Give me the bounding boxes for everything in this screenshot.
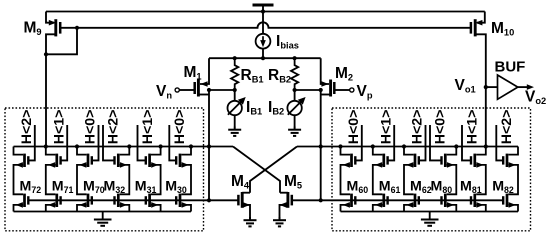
node: M1 drain junction [207, 88, 211, 92]
wire: tail rail connecting M1, RB1, Ibias, RB2, M2 sources [209, 57, 321, 59]
wire: M9 diode connection gate-to-drain [46, 28, 77, 55]
svg-text:H<2>: H<2> [410, 110, 426, 145]
wire: M1 drain lead [198, 94, 209, 96]
transistor column M72 (switch over load) [14, 147, 29, 195]
dashed box: left load array [5, 108, 204, 231]
ground symbol of right load array [429, 212, 431, 219]
node: M9 drain junction [44, 52, 48, 56]
wire: H control line of column M61 [388, 125, 395, 160]
node: left node junction [207, 144, 211, 148]
svg-text:H<2>: H<2> [106, 110, 122, 145]
current source IB1 (adjustable) [228, 90, 246, 127]
wire: M2 drain lead [321, 94, 331, 96]
transistor M1 (PMOS input, Vn) [179, 58, 209, 96]
svg-text:H<1>: H<1> [465, 110, 481, 145]
node: Ibias output [261, 56, 265, 60]
node: RB2 bottom / IB2 top [293, 88, 297, 92]
wire: diagonal from right node to M4 drain [250, 147, 297, 193]
wire: load gate bus of left load array [28, 199, 209, 201]
wire: H control line of column M62 [419, 125, 426, 160]
wire: H control line of column M32 [103, 125, 115, 160]
wire: H control line of column M72 [28, 125, 35, 160]
svg-text:H<2>: H<2> [19, 110, 35, 145]
transistor column M30 (switch over load) [176, 147, 191, 195]
node: Vo1 [484, 85, 488, 89]
node: RB1 top [233, 56, 237, 60]
wire: H control line of column M31 [138, 125, 146, 160]
wire: left output node (M1 drain) down to array and M4 gate [208, 90, 210, 200]
wire: H control line of column M80 [430, 125, 442, 160]
wire: node rail inside left load array [14, 146, 204, 148]
wire: right node horizontal to cross-coupling [297, 146, 332, 148]
node: rail junction of column M60 [338, 144, 342, 148]
wire: Vo1 to buffer input [486, 86, 498, 88]
current source IB2 (adjustable) [287, 90, 305, 127]
power supply symbol (VDD T-bar) [253, 4, 274, 7]
ground below IB1 [228, 127, 241, 136]
wire: ground rail of right load array [341, 211, 519, 213]
transistor column M80 (switch over load) [442, 147, 457, 195]
node: right node junction [319, 144, 323, 148]
wire: right output node (M2 drain) down to array and M5 gate [320, 90, 322, 200]
wire: H control line of column M70 [92, 125, 99, 160]
wire: VDD top rail [46, 11, 485, 13]
terminal Vn [175, 88, 179, 92]
node: rail junction of column M80 [454, 144, 458, 148]
dashed box: right load array [332, 108, 531, 231]
svg-text:H<2>: H<2> [499, 110, 515, 145]
node: RB2 top [293, 56, 297, 60]
transistor column M81 (switch over load) [471, 147, 486, 195]
wire: diagonal from left node to M5 drain [233, 147, 280, 193]
wire: ground rail of left load array [14, 211, 192, 213]
transistor M5 (cross-coupled NMOS) [280, 192, 321, 217]
current source Ibias [256, 12, 271, 59]
node: rail junction of column M81 [484, 144, 488, 148]
op-amp BUF (unity buffer) [498, 75, 518, 99]
transistor column M70 (switch over load) [77, 147, 92, 195]
svg-text:H<0>: H<0> [172, 110, 188, 145]
svg-text:H<1>: H<1> [378, 110, 394, 145]
transistor column M31 (switch over load) [146, 147, 161, 195]
wire: H control line of column M71 [61, 125, 68, 160]
transistor column M71 (switch over load) [46, 147, 61, 195]
transistor M2 (PMOS input, Vp) [321, 58, 350, 96]
wire: M2 drain node to RB2 bottom [295, 89, 321, 91]
transistor column M61 (switch over load) [373, 147, 388, 195]
svg-text:H<1>: H<1> [140, 110, 156, 145]
svg-text:H<0>: H<0> [346, 110, 362, 145]
wire: H control line of column M30 [169, 125, 176, 160]
ground below IB2 [288, 127, 301, 136]
resistor RB2 [291, 58, 298, 89]
svg-text:H<0>: H<0> [433, 110, 449, 145]
wire: buffer output with arrow to Vo2 [518, 86, 528, 88]
transistor column M82 (switch over load) [503, 147, 518, 195]
node: gate line junction [75, 26, 79, 30]
node: rail junction of column M62 [402, 144, 406, 148]
wire: left node horizontal to cross-coupling [203, 146, 233, 148]
resistor RB1 [231, 58, 238, 89]
wire: H control line of column M82 [496, 125, 503, 160]
ground symbol of left load array [102, 212, 104, 219]
svg-text:BUF: BUF [495, 59, 526, 76]
svg-text:H<1>: H<1> [51, 110, 67, 145]
node: VDD rail / Ibias junction [261, 9, 265, 13]
node: rail junction of column M30 [189, 144, 193, 148]
node: M2 drain junction [319, 88, 323, 92]
wire: load gate bus of right load array [321, 199, 504, 201]
transistor column M32 (switch over load) [115, 147, 130, 195]
node: rail junction of column M32 [127, 144, 131, 148]
ground below M4 [244, 217, 257, 226]
svg-text:H<0>: H<0> [83, 110, 99, 145]
wire: node rail inside right load array [332, 146, 518, 148]
node: M4 gate junction with array gate bus [207, 198, 211, 202]
wire: H control line of column M81 [462, 125, 471, 160]
transistor M9 (diode-connected PMOS) [46, 12, 60, 147]
transistor M10 (PMOS current mirror output) [471, 12, 486, 147]
transistor column M62 (switch over load) [404, 147, 419, 195]
node: rail junction of column M71 [44, 144, 48, 148]
node: rail junction of column M31 [159, 144, 163, 148]
ground below M5 [273, 217, 286, 226]
node: rail junction of column M61 [371, 144, 375, 148]
wire: M1 drain node to RB1 bottom [209, 89, 235, 91]
node: RB1 bottom / IB1 top [233, 88, 237, 92]
transistor M4 (cross-coupled NMOS) [209, 192, 250, 217]
wire: H control line of column M60 [355, 125, 362, 160]
terminal Vp [350, 88, 354, 92]
node: rail junction of column M70 [75, 144, 79, 148]
wire: M9-M10 gate line with hop over Ibias wire [60, 22, 471, 28]
transistor column M60 (switch over load) [341, 147, 356, 195]
node: M5 gate junction with array gate bus [319, 198, 323, 202]
